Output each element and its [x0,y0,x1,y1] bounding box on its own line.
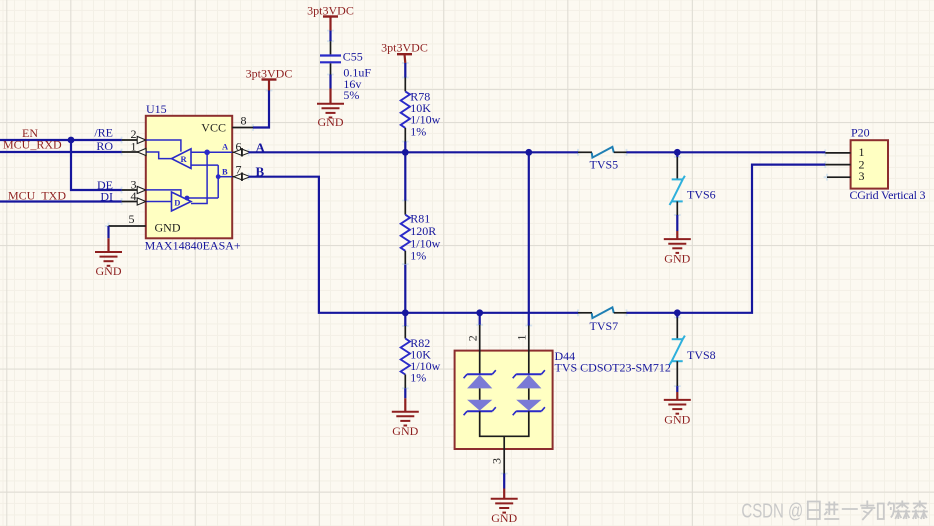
svg-text:GND: GND [664,252,690,266]
watermark CSDN [741,499,927,522]
svg-text:1: 1 [131,140,137,154]
net label A [256,140,266,155]
fuse TVS5 [578,147,627,172]
D44 comment TVS CDSOT23-SM712 [555,360,671,374]
svg-text:TVS6: TVS6 [687,188,716,202]
wire MCU_TXD [0,200,122,202]
wire EN to DE [71,140,122,190]
D44 pin 2 [465,325,479,374]
ground U15 pin5 [95,238,122,278]
U15 pin 4 DI [100,189,145,205]
resistor R81 [401,201,441,265]
svg-text:GND: GND [96,264,122,278]
P20 pin 1 [825,145,864,159]
svg-text:U15: U15 [146,102,167,116]
D44 designator [555,349,576,363]
U15 driver triangle D [172,192,192,211]
U15 internal wire B vertical [187,165,218,198]
fuse TVS7 [578,307,627,333]
wire B from pin7 [249,177,579,313]
wire A to R81 [404,152,406,200]
D44 pin 3 [489,436,504,473]
connector P20 body [851,140,888,188]
svg-text:GND: GND [491,511,517,525]
D44 pin 1 [515,326,529,375]
wire C55 to ground [329,75,331,89]
svg-text:CSDN @: CSDN @ [741,499,803,522]
P20 designator [851,125,870,139]
svg-text:3: 3 [859,169,865,183]
U15 internal wire /RE to R enable [146,140,181,152]
U15 VCC text [201,120,226,134]
U15 pin 6 A [232,140,250,157]
svg-text:2: 2 [465,335,479,341]
U15 internal junction D enable [185,196,190,201]
U15 GND text [155,220,181,234]
U15 pin 7 B [232,163,250,181]
IC U15 body [146,116,232,239]
svg-text:1%: 1% [410,249,426,263]
capacitor C55 [320,41,371,102]
net label MCU_TXD [8,189,66,203]
wire B to R82 [404,313,406,326]
wire R78 to A [404,142,406,153]
U15 internal wire DI to D input [146,201,172,203]
svg-text:GND: GND [318,115,344,129]
wire A right [627,151,826,153]
svg-text:5: 5 [129,212,135,226]
svg-text:1%: 1% [410,124,426,138]
D44 internal bottom wire [480,411,529,436]
svg-text:RO: RO [96,139,113,153]
wire A to TVS6 [676,152,678,157]
svg-text:GND: GND [155,220,181,234]
U15 pin 2 /RE [94,126,145,144]
U15 pin 3 DE [97,178,146,194]
U15 internal wire R input to pin A [191,151,232,153]
U15 inside pin label B [222,166,228,176]
D44 diode pair right [513,370,545,415]
U15 inside pin label A [222,141,229,151]
P20 comment CGrid Vertical 3 [850,188,926,202]
junction A-TVS6 [674,149,681,156]
U15 internal junction A [204,150,210,156]
svg-text:TVS8: TVS8 [687,348,716,362]
svg-text:5%: 5% [343,88,359,102]
U15 internal wire RO to R output [146,152,172,159]
net label EN [22,126,38,140]
svg-text:8: 8 [241,114,247,128]
svg-text:R: R [181,154,188,164]
svg-text:6: 6 [236,140,242,154]
svg-text:3pt3VDC: 3pt3VDC [381,40,428,54]
ground TVS8 [664,392,691,427]
svg-text:7: 7 [236,163,242,177]
wire R82 to ground [404,388,406,398]
svg-text:VCC: VCC [201,120,226,134]
U15 designator [146,102,167,116]
wire D44 pin3 to ground [503,474,505,489]
junction EN branch [68,137,75,144]
U15 internal junction B [216,174,221,179]
wire 3pt3VDC to pin 8 [253,91,269,128]
svg-text:B: B [222,166,228,176]
wire EN [0,139,122,141]
U15 pin 1 RO [96,139,146,156]
net label B [256,164,265,179]
junction B-TVS8 [674,309,681,316]
svg-text:P20: P20 [851,125,870,139]
D44 diode pair left [464,370,496,415]
P20 pin 3 [827,169,865,183]
svg-text:GND: GND [392,424,418,438]
U15 internal wire A to D output [191,152,207,203]
svg-text:DI: DI [100,189,113,203]
wire TVS8 to ground [676,386,678,392]
power port 3pt3VDC (C55) [307,4,354,31]
junction B-D44 [476,309,483,316]
junction A-R78 [402,149,409,156]
svg-text:A: A [222,141,229,151]
svg-text:3pt3VDC: 3pt3VDC [246,66,293,80]
P20 pin 2 [825,157,864,171]
wire B right [627,165,826,313]
junction B-R82 [402,309,409,316]
svg-text:MAX14840EASA+: MAX14840EASA+ [145,238,241,252]
ground TVS6 [664,231,691,266]
U15 part number MAX14840EASA+ [145,238,241,252]
wire R81 to B [404,265,406,313]
svg-text:MCU_RXD: MCU_RXD [3,138,62,152]
svg-text:1: 1 [515,335,529,341]
varistor TVS6 [670,157,716,215]
wire A to D44 pin1 [528,152,530,325]
wire B to TVS8 [676,313,678,318]
wire TVS6 to ground [676,215,678,231]
U15 internal wire pin B [218,176,232,178]
ground C55 [317,89,344,130]
resistor R82 [401,326,441,388]
svg-text:TVS CDSOT23-SM712: TVS CDSOT23-SM712 [555,360,671,374]
power port 3pt3VDC (U15) [246,66,293,90]
svg-text:TVS5: TVS5 [590,158,619,172]
svg-text:4: 4 [131,189,137,203]
U15 pin 8 VCC [232,114,253,128]
D44 body [455,351,553,449]
svg-text:C55: C55 [343,50,363,64]
wire MCU_RXD [0,151,122,153]
power port 3pt3VDC (R78) [381,40,428,63]
varistor TVS8 [670,318,716,387]
svg-text:D: D [174,197,180,207]
svg-text:TVS7: TVS7 [590,319,619,333]
wire A left [249,151,579,153]
U15 internal wire DE to D enable [146,190,181,197]
ground D44 [491,489,518,526]
wire B to D44 pin2 [479,313,481,325]
U15 pin 5 GND [109,212,146,226]
wire 3pt3VDC to C55 [329,31,331,42]
ground R82 [392,398,419,438]
hotspot markers [105,27,830,477]
svg-text:CGrid Vertical 3: CGrid Vertical 3 [850,188,926,202]
svg-text:GND: GND [664,413,690,427]
svg-text:1%: 1% [410,371,426,385]
svg-text:/RE: /RE [94,126,113,140]
resistor R78 [401,78,441,142]
junction A-D44 [525,149,532,156]
U15 receiver triangle R [172,149,192,169]
wire 3pt3VDC to R78 [404,63,406,78]
net label MCU_RXD [3,138,62,152]
svg-text:3: 3 [489,458,503,464]
wire pin5 to ground [107,226,109,238]
